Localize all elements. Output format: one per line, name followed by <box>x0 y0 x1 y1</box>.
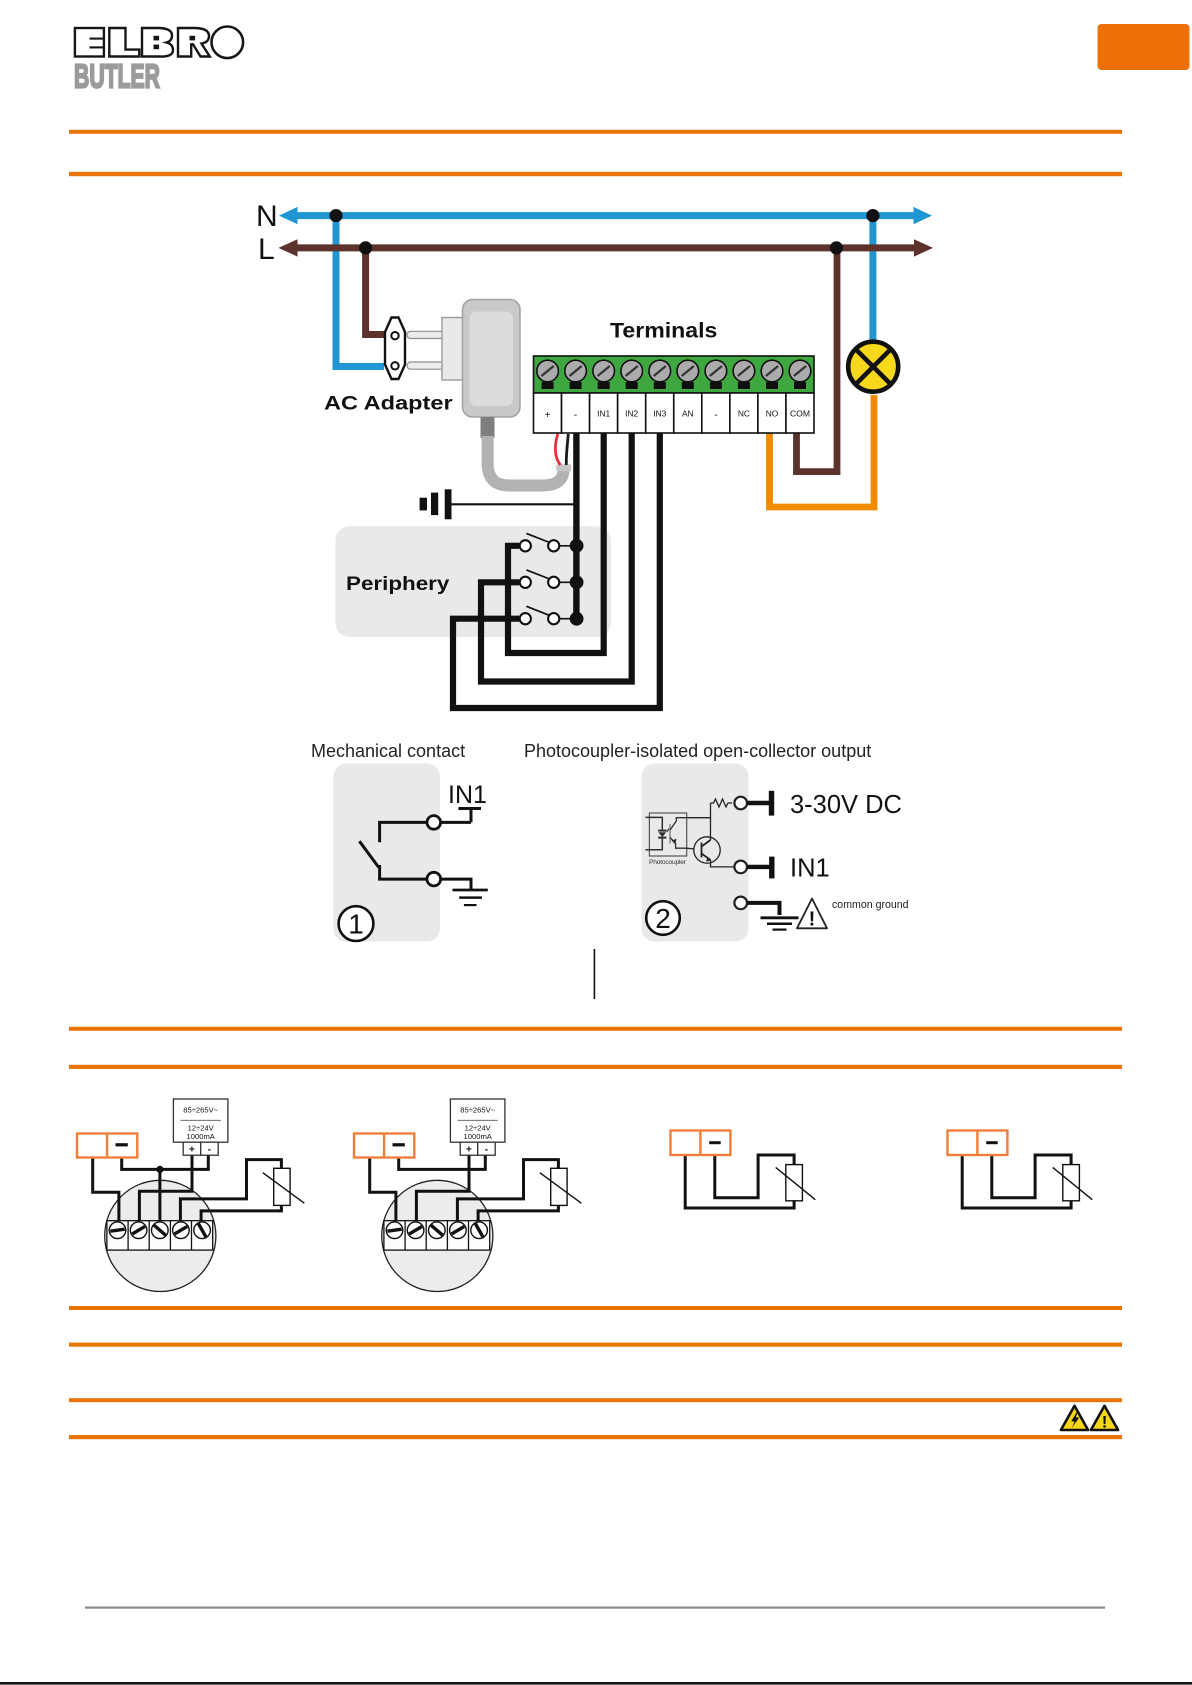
sensor resistor RT <box>274 1168 290 1205</box>
periphery box <box>335 526 611 637</box>
svg-text:AC Adapter: AC Adapter <box>324 393 453 414</box>
svg-text:IN3: IN3 <box>653 409 666 419</box>
AC adapter cable connector <box>481 417 495 438</box>
node L-left junction <box>359 241 372 254</box>
orange rule 7 <box>69 1398 1122 1402</box>
switch K1 lower contact <box>380 865 471 890</box>
terminal label cells <box>534 393 815 433</box>
contact IN1 <box>734 861 747 874</box>
svg-text:3-30V DC: 3-30V DC <box>790 791 902 819</box>
logo letter E <box>75 28 104 57</box>
svg-text:-: - <box>714 410 717 421</box>
AC adapter cable <box>488 436 564 486</box>
AC plug face <box>385 318 405 380</box>
wire N drop to lamp <box>869 216 876 342</box>
svg-text:1000mA: 1000mA <box>464 1132 493 1141</box>
wire IN2 loop <box>481 433 632 682</box>
svg-text:!: ! <box>1102 1413 1108 1432</box>
wire red lead <box>555 434 560 465</box>
ground symbol <box>449 503 576 505</box>
warning triangle caution <box>1091 1406 1118 1430</box>
switch S3 <box>520 606 584 625</box>
CONTACT EXAMPLES <box>311 741 909 999</box>
example 2 panel <box>642 764 749 942</box>
node N-right junction <box>866 209 879 222</box>
wire L arrow left <box>279 239 298 256</box>
FOOTER <box>0 1406 1192 1685</box>
orange rule 5 <box>69 1306 1122 1310</box>
diagram B1: sensor only <box>671 1131 816 1209</box>
svg-text:85÷265V~: 85÷265V~ <box>460 1106 495 1115</box>
svg-text:-: - <box>208 1145 211 1156</box>
warning triangle high-voltage <box>1061 1406 1088 1430</box>
photocoupler U1 box <box>649 813 686 856</box>
divider line <box>593 949 595 999</box>
wire IN1 loop <box>508 433 604 653</box>
svg-text:!: ! <box>809 909 816 931</box>
wire minus (thick black) <box>573 433 579 619</box>
terminal clamp slots <box>542 382 806 389</box>
resistor R1 <box>711 799 733 807</box>
node L-right junction <box>830 241 843 254</box>
logo letter O <box>212 27 244 59</box>
receiver box (orange) <box>77 1134 137 1158</box>
orange rule 3 <box>69 1027 1122 1031</box>
orange corner block <box>1098 24 1190 70</box>
svg-text:+: + <box>189 1145 195 1156</box>
contact common ground <box>734 897 747 910</box>
wire N line <box>293 212 917 219</box>
orange rule 6 <box>69 1343 1122 1347</box>
power supply PSU <box>173 1099 228 1156</box>
wire black lead <box>566 434 568 465</box>
HEADER <box>69 24 1190 1439</box>
photocoupler LED <box>646 817 670 849</box>
wire photocoupler to transistor <box>687 847 695 850</box>
switch S1 <box>520 533 584 552</box>
svg-text:IN1: IN1 <box>448 781 487 809</box>
logo letter R <box>178 28 210 57</box>
lamp E1 <box>848 342 898 392</box>
svg-text:NO: NO <box>766 409 779 419</box>
svg-text:NC: NC <box>738 409 750 419</box>
wire plus to screw2 <box>139 1155 192 1224</box>
node junction <box>156 1166 163 1173</box>
footer gray rule <box>85 1607 1105 1609</box>
wire L drop to plug <box>366 248 384 335</box>
footer bottom rule <box>0 1682 1192 1685</box>
orange rule 1 <box>69 130 1122 134</box>
switch K1 lever <box>359 841 378 867</box>
AC adapter prong plate <box>442 318 464 381</box>
AC adapter cable ferrule <box>556 464 571 471</box>
wire N arrow left <box>279 207 298 224</box>
wire sensor top <box>180 1160 281 1224</box>
svg-text:COM: COM <box>790 409 810 419</box>
terminal block TB1 <box>534 356 815 393</box>
terminal strip <box>107 1221 213 1250</box>
orange rule 8 <box>69 1435 1122 1439</box>
photocoupler phototransistor <box>670 818 687 849</box>
terminal tee IN1 <box>458 809 481 823</box>
contact 3-30V <box>734 797 747 810</box>
LOGO <box>74 27 243 96</box>
logo letter B <box>142 28 173 57</box>
wire L line <box>293 244 918 251</box>
wire bus minus <box>122 1155 209 1169</box>
wire NO to lamp (orange) <box>770 395 875 507</box>
svg-text:1: 1 <box>348 909 364 940</box>
wire from receiver minus-left <box>93 1158 119 1225</box>
svg-text:common ground: common ground <box>832 899 909 911</box>
diagram A1: powered thermostat <box>77 1099 304 1292</box>
svg-text:1000mA: 1000mA <box>187 1132 216 1141</box>
logo letter L <box>109 28 139 57</box>
svg-text:BUTLER: BUTLER <box>74 59 160 96</box>
svg-text:N: N <box>256 200 278 233</box>
ground (example 2) <box>761 918 799 930</box>
switch S2 <box>520 570 584 589</box>
diagram B2: sensor only <box>948 1131 1093 1209</box>
svg-text:+: + <box>545 410 551 421</box>
wire collector junction <box>687 803 711 840</box>
wire emitter to IN1 <box>711 860 735 867</box>
AC adapter prongs <box>407 331 445 338</box>
LOWER DIAGRAMS <box>77 1099 1092 1292</box>
svg-text:Mechanical contact: Mechanical contact <box>311 741 465 761</box>
MAIN DIAGRAM <box>256 200 933 708</box>
svg-text:IN1: IN1 <box>597 409 610 419</box>
terminal labels <box>545 409 810 422</box>
orange rule 4 <box>69 1065 1122 1069</box>
switch K1 upper contact <box>380 822 471 842</box>
svg-text:IN1: IN1 <box>790 855 830 883</box>
svg-text:Periphery: Periphery <box>346 574 450 595</box>
wire N drop to plug <box>336 216 384 367</box>
strip screws <box>109 1222 210 1239</box>
svg-text:+: + <box>466 1145 472 1156</box>
diagram A2: powered thermostat (no bus junction) <box>354 1099 581 1292</box>
terminal screws <box>537 360 811 382</box>
transistor Q1 <box>694 837 720 863</box>
ground (example 1) <box>453 890 488 905</box>
wire L arrow right <box>914 239 933 256</box>
wire sensor bottom <box>201 1205 281 1224</box>
AC adapter body <box>463 300 521 418</box>
svg-text:85÷265V~: 85÷265V~ <box>183 1106 218 1115</box>
wire COM to L (brown) <box>797 251 838 472</box>
svg-text:2: 2 <box>655 903 671 934</box>
svg-text:Photocoupler: Photocoupler <box>649 859 687 866</box>
warning triangle (example 2) <box>797 899 827 929</box>
example 1 panel <box>333 764 440 942</box>
svg-text:IN2: IN2 <box>625 409 638 419</box>
svg-text:Terminals: Terminals <box>610 318 717 342</box>
svg-text:L: L <box>258 233 275 266</box>
wire IN3 loop <box>453 433 660 708</box>
node N-left junction <box>329 209 342 222</box>
circled 1 <box>339 906 374 941</box>
terminal screw slots <box>542 366 807 376</box>
svg-text:Photocoupler-isolated open-col: Photocoupler-isolated open-collector out… <box>524 741 871 761</box>
wire junction to screw3 <box>158 1169 161 1224</box>
circled 2 <box>646 901 680 935</box>
svg-text:-: - <box>485 1145 488 1156</box>
orange rule 2 <box>69 172 1122 176</box>
wire N arrow right <box>914 207 933 224</box>
round thermostat body <box>105 1180 216 1291</box>
svg-text:AN: AN <box>682 409 694 419</box>
svg-text:-: - <box>574 410 577 421</box>
